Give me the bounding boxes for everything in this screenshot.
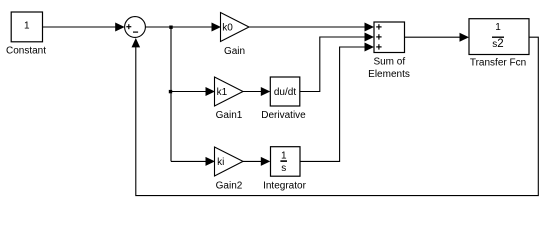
svg-text:ki: ki [217, 157, 224, 168]
block Integrator [271, 147, 301, 177]
wire Gain to Sum of Elements input 1 [249, 23, 374, 32]
svg-text:1: 1 [24, 21, 30, 32]
gain Gain1 k1 [215, 77, 244, 106]
gain Gain k0 [221, 13, 250, 42]
svg-text:Gain: Gain [224, 46, 245, 57]
svg-text:Gain1: Gain1 [216, 110, 243, 121]
wire Gain1 to Derivative [243, 87, 270, 96]
wire Transfer Fcn feedback to Sum [132, 37, 539, 195]
wire branch down from junction [170, 27, 172, 161]
label Sum of Elements [368, 57, 410, 80]
svg-text:Elements: Elements [368, 69, 410, 80]
sum junction Sum [125, 17, 146, 38]
svg-text:Integrator: Integrator [263, 181, 306, 192]
block Derivative [270, 77, 300, 106]
wire Integrator to Sum of Elements input 3 [300, 43, 374, 162]
svg-text:Transfer Fcn: Transfer Fcn [470, 58, 526, 69]
svg-text:Derivative: Derivative [261, 110, 306, 121]
block Transfer Fcn [469, 19, 529, 55]
wire Sum to Gain [145, 23, 221, 32]
svg-text:1: 1 [495, 22, 501, 33]
block Sum of Elements [374, 22, 405, 53]
svg-text:Sum of: Sum of [373, 57, 405, 68]
svg-text:Gain2: Gain2 [216, 181, 243, 192]
wire Gain2 to Integrator [243, 157, 270, 166]
wire branch to Gain2 [171, 157, 215, 166]
svg-text:Constant: Constant [6, 46, 46, 57]
junction dot branch node [169, 26, 172, 29]
block Constant [11, 12, 42, 42]
svg-text:k1: k1 [217, 87, 228, 98]
wire branch to Gain1 [171, 87, 215, 96]
svg-text:1: 1 [281, 150, 287, 161]
svg-text:s2: s2 [492, 38, 503, 50]
gain Gain2 ki [215, 147, 244, 176]
svg-text:s: s [281, 163, 286, 174]
svg-text:k0: k0 [222, 22, 233, 33]
svg-text:du/dt: du/dt [274, 87, 296, 98]
wire Constant to Sum [43, 23, 125, 32]
wire Sum of Elements to Transfer Fcn [405, 33, 470, 42]
wire Derivative to Sum of Elements input 2 [300, 33, 374, 92]
junction dot Gain1 branch node [169, 90, 172, 93]
